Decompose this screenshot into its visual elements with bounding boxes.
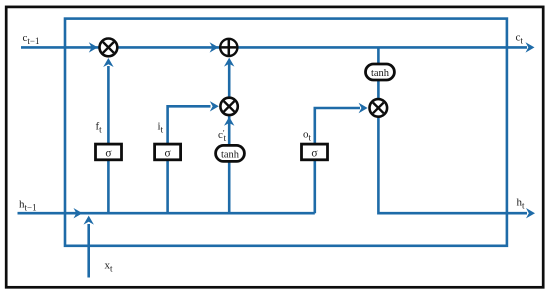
wire: forget-gate column f <box>107 66 110 213</box>
arrowhead into multiply node on c line <box>89 42 98 52</box>
wire: x(t) input from bottom <box>87 224 90 278</box>
multiply node (output gate x tanh) <box>370 99 388 117</box>
arrowhead multiply to add node <box>224 58 234 67</box>
wire: candidate column c-tilde <box>228 61 231 213</box>
arrowhead c(t) output <box>526 42 535 52</box>
arrowhead candidate into multiply node <box>224 117 234 126</box>
sigma gate box i <box>155 144 181 160</box>
multiply node (input x candidate) <box>220 98 237 115</box>
tanh box (cell output) <box>366 64 395 80</box>
arrowhead output-gate branch into multiply node <box>359 103 368 113</box>
arrowhead x(t) up into h line <box>84 216 94 225</box>
svg-text:σ: σ <box>311 147 318 159</box>
sigma gate box f <box>96 144 122 160</box>
arrowhead forget column into multiply node <box>103 58 113 67</box>
arrowhead h(t) output <box>526 208 535 218</box>
sigma gate box o <box>302 144 328 160</box>
svg-text:tanh: tanh <box>371 68 390 79</box>
LSTM cell boundary rectangle <box>65 19 507 246</box>
tanh box (candidate) <box>216 145 245 161</box>
arrowhead on h(t-1) line <box>74 208 83 218</box>
arrowhead into add node on c line <box>210 42 219 52</box>
wire: h(t-1) input line <box>18 212 315 215</box>
svg-text:σ: σ <box>105 147 112 159</box>
wire: output-gate column o with branch to multiply node <box>315 108 360 213</box>
wire: c(t-1) cell-state line left to right <box>21 46 527 49</box>
add node on c line <box>220 39 237 56</box>
svg-text:σ: σ <box>164 147 171 159</box>
arrowhead input-gate branch into multiply node <box>210 101 219 111</box>
svg-text:tanh: tanh <box>221 150 240 161</box>
wire: tanh branch down to h(t) output line <box>378 47 527 213</box>
multiply node (forget) on c line <box>100 39 118 57</box>
wire: input-gate column i with branch to multiply node <box>168 106 211 213</box>
